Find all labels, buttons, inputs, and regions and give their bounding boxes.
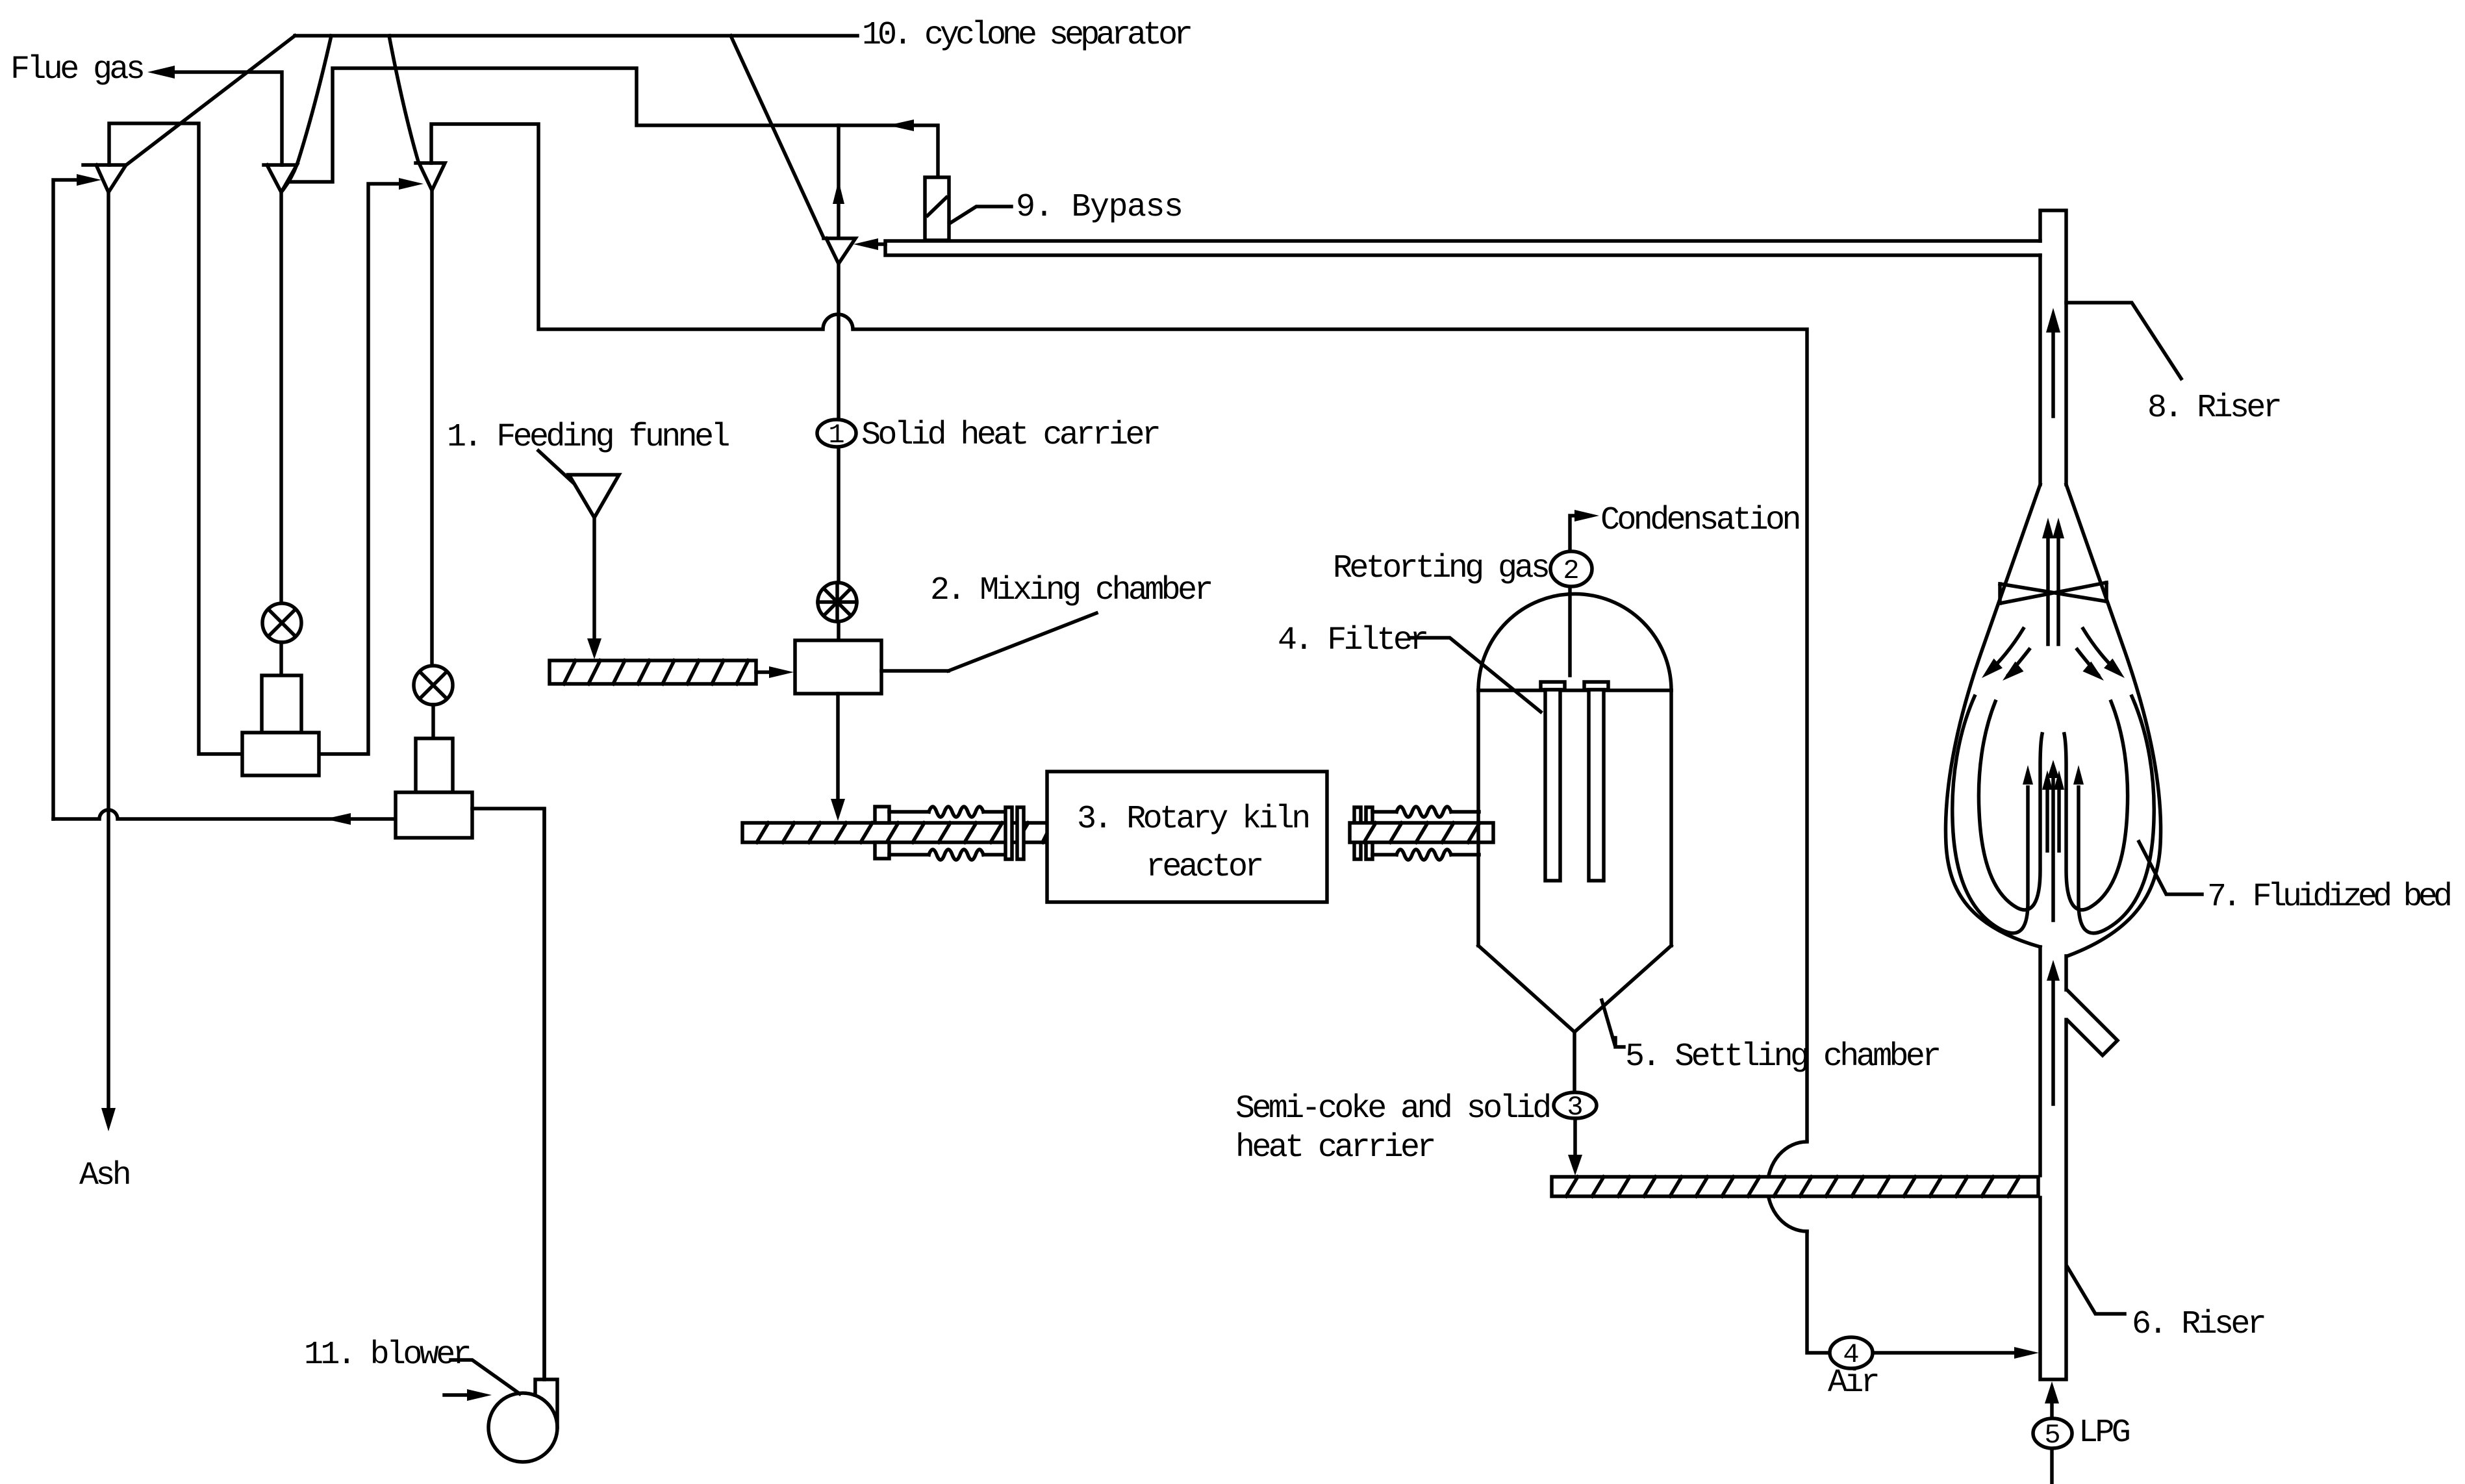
node 3 semi-coke stream [1554, 1092, 1597, 1123]
svg-text:1. Feeding funnel: 1. Feeding funnel [447, 419, 729, 456]
arrow ash down [101, 1108, 116, 1131]
svg-text:8. Riser: 8. Riser [2147, 390, 2280, 427]
svg-text:LPG: LPG [2079, 1415, 2129, 1452]
wire recycle gas line bypass to cyclone 2 [288, 68, 938, 182]
svg-text:10. cyclone separator: 10. cyclone separator [862, 17, 1191, 54]
fluidized bed vessel 7 outline right [2066, 484, 2161, 956]
svg-text:2. Mixing chamber: 2. Mixing chamber [930, 572, 1211, 609]
wire mixing chamber down to kiln [836, 694, 840, 803]
wire leader diagonal to cyclone 4 [731, 36, 824, 238]
arrow into mixing chamber [769, 666, 794, 678]
wire kiln shaft right outer [1451, 812, 1479, 855]
wire leader to fluidized bed label [2139, 842, 2202, 894]
wire leader to filter [1411, 638, 1541, 712]
streamline left inner in bed [1978, 701, 2042, 910]
arrow flue gas outlet [147, 66, 175, 79]
arrow curved down-right outer top of bed [2083, 629, 2129, 683]
svg-text:1: 1 [828, 420, 844, 451]
svg-text:heat carrier: heat carrier [1235, 1129, 1434, 1166]
arrow up inside riser 8 [2046, 308, 2060, 416]
wire box 3 to blower line [472, 809, 544, 1379]
svg-text:3. Rotary kiln: 3. Rotary kiln [1077, 801, 1308, 838]
fluidized bed vessel 7 outline left [1945, 484, 2040, 947]
valve rotary on cyclone 2 dipleg [262, 603, 301, 642]
svg-text:Semi-coke and solid: Semi-coke and solid [1235, 1090, 1549, 1127]
arrow to condensation [1574, 510, 1599, 522]
cyclone separator 2 [264, 165, 297, 192]
svg-text:Condensation: Condensation [1600, 502, 1799, 539]
wire leader diagonal to cyclone 1 [125, 36, 295, 166]
wire funnel down to conveyor [592, 518, 596, 642]
wire leader to blower label [451, 1360, 520, 1394]
svg-text:7. Fluidized bed: 7. Fluidized bed [2207, 879, 2450, 916]
bypass valve 9 [925, 177, 949, 240]
filter element 2 [1584, 682, 1608, 881]
wire cyclone 2 dipleg lower [279, 642, 283, 675]
wire kiln shaft left inner [983, 812, 1005, 855]
node 5 LPG stream [2033, 1418, 2072, 1451]
riser 6 tube [2040, 947, 2066, 1379]
arrow blower air inlet [444, 1389, 492, 1401]
filter element 1 [1541, 682, 1565, 881]
wire cyclone 1 dipleg to ash [107, 192, 110, 1112]
svg-text:Air: Air [1828, 1365, 1878, 1402]
wire kiln shaft left upper [889, 812, 929, 855]
wire leader to riser 6 label [2067, 1267, 2125, 1314]
cyclone separator 3 [416, 163, 445, 190]
feeder box 3 [396, 792, 472, 838]
arrow down into kiln feed [831, 799, 845, 821]
streamline right inner in bed [2064, 701, 2128, 910]
cyclone separator 1 [83, 165, 126, 192]
wire leader to riser 8 label [2066, 303, 2181, 379]
wire cyclone 4 dipleg solid heat carrier [837, 264, 841, 640]
conveyor screw feeder hatched [550, 660, 756, 684]
wire center jet line in bed lower [2047, 760, 2059, 920]
kiln outlet conveyor hatched into settling chamber [1350, 823, 1493, 842]
node 4 air stream [1830, 1337, 1873, 1370]
wire cyclone 1 gas outlet loop [109, 123, 242, 754]
svg-text:Ash: Ash [79, 1157, 129, 1194]
arrow air into riser 6 [2014, 1347, 2039, 1359]
wire air line to riser 6 [1807, 1231, 2017, 1353]
arrow down onto conveyor [587, 638, 601, 659]
bottom conveyor hatched semi-coke to riser [1552, 1177, 2038, 1196]
streamline right outer in bed [2073, 696, 2154, 933]
flange pair left of kiln [875, 807, 889, 859]
flange plates right of kiln box [1354, 807, 1372, 859]
wire cyclone 3 dipleg [430, 190, 434, 666]
wire cyclone 3 dipleg lower [431, 705, 435, 738]
svg-text:Solid heat carrier: Solid heat carrier [861, 417, 1159, 454]
valve rotary on cyclone 3 dipleg [414, 666, 453, 705]
nozzle slanted outlet on riser 6 [2068, 991, 2117, 1055]
svg-text:reactor: reactor [1146, 849, 1261, 886]
blower 11 [488, 1379, 557, 1462]
feeder neck under cyclone 2 [262, 675, 301, 733]
kiln feed conveyor hatched [742, 823, 1057, 842]
wire mixing chamber outlet right [881, 669, 948, 673]
wire air line hop over conveyor [1767, 1142, 1807, 1231]
svg-text:Flue gas: Flue gas [10, 51, 143, 88]
arrow feed into cyclone 1 [77, 174, 101, 186]
arrow curved down-left outer top of bed [1977, 629, 2023, 683]
arrow into cyclone 4 [853, 238, 878, 250]
wire leader to bypass label [950, 207, 1011, 223]
rotary kiln reactor box 3 [1047, 772, 1327, 902]
valve rotary above mixing chamber [818, 583, 857, 622]
wire cyclone 4 gas outlet [837, 125, 841, 238]
svg-text:5: 5 [2044, 1420, 2060, 1451]
wire recirculation line box3 to cyclone1 riser with hop [53, 810, 396, 819]
svg-text:6. Riser: 6. Riser [2132, 1306, 2264, 1343]
wire leader to settling chamber [1602, 1000, 1624, 1047]
svg-text:Retorting gas: Retorting gas [1333, 550, 1548, 587]
wire cyclone 4 inlet from pipe [873, 242, 885, 246]
cyclone separator 4 [824, 238, 855, 264]
wire leader curve to cyclone 2 [283, 36, 331, 190]
wire cyclone 1 feed riser from box 3 [53, 180, 83, 819]
wire leader to mixing chamber label [948, 613, 1096, 671]
wire conveyor to mixing chamber [756, 670, 774, 674]
arrow down onto bottom conveyor [1568, 1155, 1582, 1176]
arrow feed into cyclone 3 [399, 178, 423, 190]
feeder neck under cyclone 3 [416, 738, 453, 792]
wire LPG inlet [2045, 1381, 2059, 1484]
arrow flow left on recirculation line [325, 813, 351, 825]
arrow short up right of center in bed [2054, 770, 2064, 851]
svg-text:9. Bypass: 9. Bypass [1016, 189, 1183, 226]
riser 8 tube [2040, 210, 2066, 484]
node 1 solid heat carrier stream [817, 420, 856, 451]
flange plates left of kiln box [1005, 807, 1024, 859]
node 2 retorting gas stream [1550, 551, 1592, 586]
wire flue gas line from cyclone 2 top [170, 72, 282, 165]
bellows right of kiln [1397, 807, 1451, 860]
wire retorting gas outlet pipe [1570, 516, 1580, 675]
wire leader to feeding funnel [538, 451, 580, 489]
wire blower outlet up to box 3 line [542, 809, 546, 1379]
pipe riser 8 to cyclone 4 double line [885, 241, 2040, 255]
svg-text:11. blower: 11. blower [304, 1337, 470, 1374]
wire leader curve to cyclone 3 [389, 36, 418, 162]
settling chamber vessel 5 [1478, 594, 1671, 1032]
wire air line from cyclone 3 loop to riser 6 [431, 124, 1807, 1140]
svg-text:5. Settling chamber: 5. Settling chamber [1625, 1038, 1939, 1075]
arrow curved down-left inner top of bed [1999, 649, 2029, 686]
feeder box 2 [242, 733, 319, 775]
wire leader main line to cyclones [295, 34, 857, 38]
wire semi-coke down to conveyor [1573, 1118, 1577, 1159]
feeding funnel [569, 475, 619, 518]
streamline left outer in bed [1953, 696, 2033, 933]
bellows left of kiln [929, 807, 983, 860]
mixing chamber box 2 [795, 640, 881, 694]
wire settling chamber bottom outlet [1573, 1032, 1576, 1092]
wire box2 to cyclone 3 feed riser [319, 184, 404, 754]
distributor bowtie in bed [2000, 583, 2106, 603]
wire kiln shaft right inner [1372, 812, 1397, 855]
svg-text:2: 2 [1563, 555, 1579, 586]
arrow curved down-right inner top of bed [2077, 649, 2108, 686]
arrow flow left on recycle line [888, 119, 914, 131]
wire cyclone 2 dipleg [279, 192, 283, 603]
arrow short up left of center in bed [2042, 770, 2053, 851]
jet twin lines with arrows in bed cone [2042, 518, 2064, 644]
svg-text:4. Filter: 4. Filter [1278, 622, 1426, 659]
wire center line inside riser 6 [2047, 960, 2060, 1104]
arrow flow up cyclone 4 gas [833, 181, 844, 204]
